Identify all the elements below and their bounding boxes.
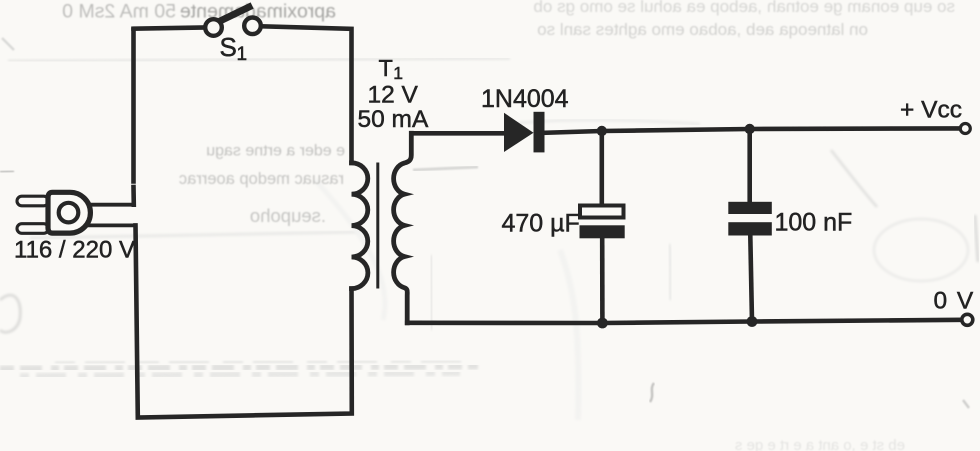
wire: bottom rail from secondary to 0V terminal [407,320,961,323]
wire: 100nF bottom lead [750,236,752,322]
junction dot: C2 bottom [747,316,758,327]
wire: 470uF top lead [599,131,604,206]
junction dot: C1 bottom [597,318,608,329]
svg-text:12 V: 12 V [368,82,419,109]
switch S1 left contact [205,19,222,36]
svg-text:100 nF: 100 nF [775,209,853,237]
svg-text:50 mA 2sM 0: 50 mA 2sM 0 [62,1,176,23]
switch S1 right contact [244,18,261,35]
wire: diode cathode to +Vcc terminal (top rail) [545,128,960,132]
svg-text:rasuac medop aoerrac: rasuac medop aoerrac [179,170,344,188]
switch S1 lever [217,7,249,23]
svg-text:S: S [220,32,237,62]
plug P1 top prong [17,196,49,206]
plug P1 body [48,192,90,233]
wire: switch to top-right corner, down to primary [261,26,352,163]
wire: left vertical upper (plug top cord to top wire) [131,187,136,205]
svg-text:0 V: 0 V [934,288,975,315]
diode D1 cathode bar [534,112,545,153]
wire: plug bottom cord [88,223,136,227]
svg-text:so eup eonam ge eotnah ,aebop: so eup eonam ge eotnah ,aebop ea aohul s… [533,0,955,16]
junction dot: diode/C1 top [597,126,607,136]
svg-text:1N4004: 1N4004 [481,85,569,113]
wire: left vertical lower + bottom wire + right vertical up to primary [136,225,352,417]
capacitor C1 470uF top plate (hollow) [580,206,624,218]
terminal +Vcc [960,124,970,134]
svg-text:eb st e ,o ant a e rt e ge s: eb st e ,o ant a e rt e ge s [735,437,905,451]
wire: plug top cord [88,203,134,207]
plug P1 [17,192,90,233]
plug P1 centre circle [59,203,79,223]
diode D1 1N4004 triangle [504,113,534,152]
svg-text:.seupoho: .seupoho [250,205,326,226]
svg-text:116 / 220 V: 116 / 220 V [14,237,135,264]
junction dot: C2 top [745,124,755,134]
capacitor C2 100nF bottom plate [728,222,772,235]
wire: 470uF bottom lead [600,238,605,323]
svg-text:on latneoqa aeb ,aobao emo agh: on latneoqa aeb ,aobao emo aghtes sanl s… [537,20,868,39]
wire: 100nF top lead [747,129,752,202]
capacitor C2 100nF top plate [728,202,772,214]
capacitor C1 470uF bottom plate [580,225,625,238]
transformer T1 core [376,164,379,287]
svg-text:+ Vcc: + Vcc [900,97,962,124]
svg-text:e eder a ertne sagu: e eder a ertne sagu [206,143,345,160]
svg-text:470 µF: 470 µF [502,210,580,238]
svg-text:1: 1 [237,44,248,65]
transformer T1 primary winding [352,163,368,289]
wire: top wire from left corner to switch [134,28,206,29]
plug P1 bottom prong [17,224,49,234]
svg-text:1: 1 [393,63,403,83]
wire: secondary top to diode anode [411,131,504,136]
transformer T1 secondary winding [394,133,412,322]
svg-text:T: T [379,55,393,81]
svg-text:50 mA: 50 mA [358,106,429,133]
terminal 0V [962,314,973,325]
